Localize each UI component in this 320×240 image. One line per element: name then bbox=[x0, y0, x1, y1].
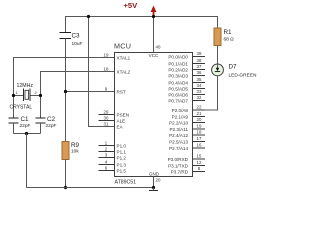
svg-text:RST: RST bbox=[117, 89, 126, 94]
junction GND rail bbox=[152, 186, 155, 189]
pin 39 P0.0/AD0 (right) bbox=[168, 51, 205, 59]
wire XTAL2 net bbox=[41, 72, 115, 119]
svg-text:C1: C1 bbox=[21, 116, 30, 123]
svg-text:P1.3: P1.3 bbox=[117, 162, 127, 167]
svg-text:34: 34 bbox=[197, 83, 202, 88]
wire ground bottom rail bbox=[27, 187, 154, 189]
svg-text:D7: D7 bbox=[229, 64, 238, 71]
svg-text:R9: R9 bbox=[71, 142, 80, 149]
pin 38 P0.1/AD1 (right) bbox=[168, 58, 205, 66]
svg-text:32: 32 bbox=[197, 95, 202, 100]
junction crystal pin2 bbox=[39, 94, 42, 97]
svg-text:P2.0/A8: P2.0/A8 bbox=[172, 108, 189, 113]
svg-text:P1.2: P1.2 bbox=[117, 155, 127, 160]
pin 21 P2.1/A9 (right) bbox=[172, 111, 205, 119]
svg-text:CRYSTAL: CRYSTAL bbox=[10, 105, 33, 111]
junction R9 ground bbox=[64, 186, 67, 189]
svg-text:EA: EA bbox=[117, 124, 124, 129]
pin 32 P0.7/AD7 (right) bbox=[168, 95, 205, 103]
svg-text:R1: R1 bbox=[224, 29, 233, 36]
svg-text:P0.0/AD0: P0.0/AD0 bbox=[168, 54, 188, 59]
pin 36 P0.3/AD3 (right) bbox=[168, 70, 205, 78]
pin 20 GND (bottom) bbox=[149, 172, 161, 183]
svg-text:12: 12 bbox=[197, 160, 202, 165]
svg-text:P3.0/RXD: P3.0/RXD bbox=[168, 157, 189, 162]
wire LED to P2.0/A8 pin bbox=[193, 76, 218, 110]
svg-text:P0.3/AD3: P0.3/AD3 bbox=[168, 73, 188, 78]
svg-text:38: 38 bbox=[197, 58, 202, 63]
svg-text:19: 19 bbox=[104, 52, 109, 57]
svg-text:12MHz: 12MHz bbox=[17, 83, 34, 89]
resistor R9 bbox=[62, 142, 80, 160]
svg-text:C3: C3 bbox=[72, 33, 81, 40]
wire XTAL1 net bbox=[14, 58, 115, 119]
svg-text:30: 30 bbox=[104, 115, 109, 120]
pin 22 P2.0/A8 (right) bbox=[172, 105, 205, 113]
svg-text:20: 20 bbox=[156, 178, 161, 183]
svg-text:35: 35 bbox=[197, 77, 202, 82]
wire C1 bottom bbox=[13, 123, 15, 134]
MCU U1 AT89C51 body bbox=[114, 42, 193, 186]
resistor R1 bbox=[214, 28, 234, 46]
svg-text:18: 18 bbox=[104, 66, 109, 71]
pin 40 VCC (top) bbox=[149, 45, 161, 59]
svg-text:P2.4/A12: P2.4/A12 bbox=[169, 133, 188, 138]
capacitor C2 bbox=[36, 116, 57, 129]
svg-text:P0.7/AD7: P0.7/AD7 bbox=[168, 98, 188, 103]
svg-text:XTAL1: XTAL1 bbox=[117, 55, 131, 60]
svg-text:+5V: +5V bbox=[124, 1, 139, 10]
pin 19 P2.3/A11 (right) bbox=[169, 124, 205, 132]
wire GND pin stub bbox=[153, 177, 155, 188]
pin 4 P1.3 (left) bbox=[99, 159, 127, 167]
wire join to ground rail bbox=[26, 134, 28, 188]
junction cap join bbox=[25, 132, 28, 135]
svg-text:P0.4/AD4: P0.4/AD4 bbox=[168, 80, 188, 85]
svg-text:P1.5: P1.5 bbox=[117, 168, 127, 173]
svg-text:ALE: ALE bbox=[117, 118, 126, 123]
pin 20 P2.2/A10 (right) bbox=[169, 117, 205, 125]
crystal X1 12MHz bbox=[10, 83, 38, 111]
pin 18 P2.4/A12 (right) bbox=[169, 130, 205, 138]
svg-text:19: 19 bbox=[197, 124, 202, 129]
junction EA rail bbox=[87, 15, 90, 18]
svg-text:XTAL2: XTAL2 bbox=[117, 69, 131, 74]
capacitor C3 bbox=[60, 33, 83, 48]
pin 33 P0.6/AD6 (right) bbox=[168, 89, 205, 97]
pin 16 P2.7/A14 (right) bbox=[169, 143, 205, 151]
svg-text:P2.7/A14: P2.7/A14 bbox=[169, 146, 188, 151]
wire C1-C2 join bbox=[14, 133, 41, 135]
pin 34 P0.5/AD5 (right) bbox=[168, 83, 205, 91]
svg-text:37: 37 bbox=[197, 64, 202, 69]
svg-text:68 Ω: 68 Ω bbox=[224, 37, 235, 43]
pin 15 P3.0/RXD (right) bbox=[168, 154, 205, 162]
svg-text:P0.5/AD5: P0.5/AD5 bbox=[168, 86, 188, 91]
svg-text:16: 16 bbox=[197, 143, 202, 148]
pin 12 P3.1/TXD (right) bbox=[168, 160, 205, 168]
svg-text:22pF: 22pF bbox=[46, 123, 57, 129]
wire C3 top lead bbox=[65, 16, 67, 33]
svg-text:31: 31 bbox=[104, 121, 109, 126]
svg-text:22pF: 22pF bbox=[20, 123, 31, 129]
pin 37 P0.2/AD2 (right) bbox=[168, 64, 205, 72]
svg-text:P2.5/A13: P2.5/A13 bbox=[169, 139, 188, 144]
svg-text:39: 39 bbox=[197, 51, 202, 56]
pin 1 P1.0 (left) bbox=[99, 140, 127, 148]
svg-text:LED-GREEN: LED-GREEN bbox=[229, 73, 258, 79]
svg-text:P2.2/A10: P2.2/A10 bbox=[169, 120, 188, 125]
svg-text:20: 20 bbox=[197, 117, 202, 122]
wire crystal right bbox=[30, 95, 41, 97]
wire RST net bbox=[66, 91, 115, 93]
wire C2 bottom bbox=[40, 123, 42, 134]
svg-text:21: 21 bbox=[197, 111, 202, 116]
wire R9 bottom lead bbox=[65, 160, 67, 188]
pin 18 XTAL2 (left) bbox=[104, 66, 131, 74]
power +5V arrow bbox=[151, 6, 157, 17]
svg-text:PSEN: PSEN bbox=[117, 112, 130, 117]
svg-text:10k: 10k bbox=[71, 149, 79, 155]
svg-text:P0.2/AD2: P0.2/AD2 bbox=[168, 67, 188, 72]
svg-text:GND: GND bbox=[149, 172, 160, 177]
pin 35 P0.4/AD4 (right) bbox=[168, 77, 205, 85]
svg-text:36: 36 bbox=[197, 70, 202, 75]
wire VCC to rail bbox=[153, 17, 155, 53]
svg-text:17: 17 bbox=[197, 136, 202, 141]
pin 30 ALE (left) bbox=[99, 115, 126, 123]
svg-text:P1.0: P1.0 bbox=[117, 143, 127, 148]
pin 19 XTAL1 (left) bbox=[104, 52, 131, 60]
pin 3 P1.2 (left) bbox=[99, 152, 127, 160]
svg-text:VCC: VCC bbox=[149, 53, 159, 58]
pin 17 P2.5/A13 (right) bbox=[169, 136, 205, 144]
LED D7 bbox=[212, 64, 257, 79]
pin 2 P1.1 (left) bbox=[99, 146, 127, 154]
svg-text:15: 15 bbox=[197, 154, 202, 159]
svg-text:MCU: MCU bbox=[114, 42, 131, 51]
svg-text:P0.6/AD6: P0.6/AD6 bbox=[168, 92, 188, 97]
pin 6 P1.5 (left) bbox=[99, 165, 127, 173]
svg-text:P3.1/TXD: P3.1/TXD bbox=[168, 163, 189, 168]
ground symbol bbox=[149, 188, 158, 191]
svg-text:AT89C51: AT89C51 bbox=[115, 180, 137, 186]
wire R1 to LED bbox=[217, 46, 219, 65]
svg-text:18: 18 bbox=[197, 130, 202, 135]
svg-text:22: 22 bbox=[197, 105, 202, 110]
svg-text:33: 33 bbox=[197, 89, 202, 94]
pin 31 EA (left) bbox=[104, 121, 124, 129]
wire rail to R1 bbox=[217, 16, 219, 28]
wire EA to rail bbox=[89, 17, 115, 127]
svg-text:40: 40 bbox=[156, 45, 161, 50]
junction VCC rail bbox=[152, 15, 155, 18]
svg-text:29: 29 bbox=[104, 109, 109, 114]
svg-text:10uF: 10uF bbox=[72, 41, 83, 47]
capacitor C1 bbox=[9, 116, 31, 129]
svg-text:P2.3/A11: P2.3/A11 bbox=[169, 127, 188, 132]
svg-text:P1.1: P1.1 bbox=[117, 149, 127, 154]
junction crystal pin1 bbox=[12, 94, 15, 97]
svg-text:C2: C2 bbox=[47, 116, 56, 123]
svg-text:P3.7/RD: P3.7/RD bbox=[171, 169, 189, 174]
pin 9 RST (left) bbox=[105, 86, 126, 94]
svg-text:P2.1/A9: P2.1/A9 bbox=[172, 114, 189, 119]
pin 8 P3.7/RD (right) bbox=[171, 166, 205, 174]
wire crystal left bbox=[14, 95, 24, 97]
svg-text:P0.1/AD1: P0.1/AD1 bbox=[168, 61, 188, 66]
pin 29 PSEN (left) bbox=[99, 109, 130, 117]
junction RST node bbox=[64, 90, 67, 93]
wire +5V top rail bbox=[66, 16, 218, 18]
wire C3 bottom to RST node bbox=[65, 39, 67, 142]
